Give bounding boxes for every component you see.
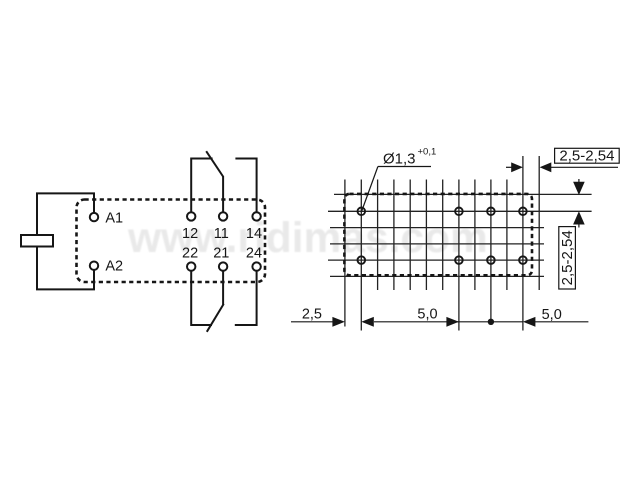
- svg-text:14: 14: [246, 226, 262, 242]
- svg-text:5,0: 5,0: [417, 307, 437, 323]
- svg-text:A2: A2: [105, 259, 123, 275]
- svg-text:11: 11: [214, 226, 229, 242]
- svg-text:21: 21: [213, 245, 229, 261]
- svg-text:2,5-2,54: 2,5-2,54: [559, 147, 614, 164]
- svg-text:5,0: 5,0: [542, 307, 562, 323]
- svg-text:2,5-2,54: 2,5-2,54: [559, 230, 576, 285]
- svg-text:12: 12: [182, 226, 198, 242]
- svg-text:Ø1,3: Ø1,3: [383, 150, 416, 167]
- svg-text:+0,1: +0,1: [418, 147, 437, 158]
- svg-text:22: 22: [182, 245, 198, 261]
- svg-text:A1: A1: [105, 210, 123, 226]
- svg-text:2,5: 2,5: [302, 307, 322, 323]
- svg-text:24: 24: [246, 245, 262, 261]
